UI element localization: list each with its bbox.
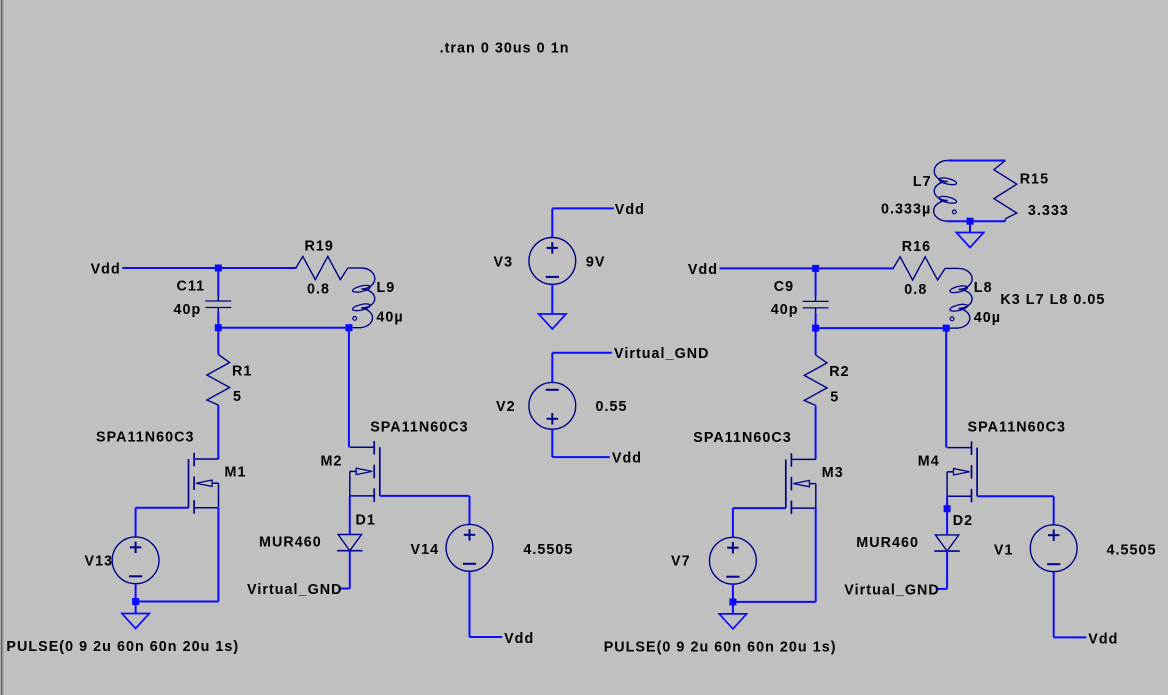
svg-text:0.55: 0.55 xyxy=(596,399,628,415)
svg-text:C11: C11 xyxy=(177,279,206,295)
svg-text:3.333: 3.333 xyxy=(1028,203,1069,219)
svg-text:Vdd: Vdd xyxy=(91,261,121,277)
svg-text:R2: R2 xyxy=(829,364,849,380)
svg-text:Virtual_GND: Virtual_GND xyxy=(844,582,940,598)
svg-text:V14: V14 xyxy=(411,542,440,558)
svg-text:M2: M2 xyxy=(321,453,343,469)
svg-text:MUR460: MUR460 xyxy=(259,535,322,551)
svg-text:4.5505: 4.5505 xyxy=(1107,542,1157,558)
svg-text:SPA11N60C3: SPA11N60C3 xyxy=(693,430,791,446)
svg-text:40µ: 40µ xyxy=(974,310,1001,326)
svg-text:Vdd: Vdd xyxy=(504,631,534,647)
svg-text:40µ: 40µ xyxy=(376,310,403,326)
svg-text:M3: M3 xyxy=(822,465,844,481)
svg-text:40p: 40p xyxy=(771,302,799,318)
svg-text:0.8: 0.8 xyxy=(904,282,927,298)
svg-text:L7: L7 xyxy=(913,174,932,190)
svg-text:V13: V13 xyxy=(85,553,114,569)
svg-text:0.8: 0.8 xyxy=(307,282,330,298)
svg-text:5: 5 xyxy=(233,389,242,405)
svg-text:R19: R19 xyxy=(305,238,334,254)
svg-text:SPA11N60C3: SPA11N60C3 xyxy=(96,429,194,445)
svg-text:40p: 40p xyxy=(174,302,202,318)
svg-text:K3 L7 L8 0.05: K3 L7 L8 0.05 xyxy=(1000,292,1105,308)
svg-text:D2: D2 xyxy=(953,513,973,529)
svg-text:Vdd: Vdd xyxy=(688,262,718,278)
svg-text:9V: 9V xyxy=(586,254,606,270)
svg-text:D1: D1 xyxy=(356,513,376,529)
svg-text:Vdd: Vdd xyxy=(612,451,642,467)
svg-text:V3: V3 xyxy=(494,254,514,270)
svg-text:V7: V7 xyxy=(671,554,691,570)
svg-text:C9: C9 xyxy=(774,279,794,295)
svg-text:R16: R16 xyxy=(902,239,931,255)
svg-text:.tran 0 30us 0 1n: .tran 0 30us 0 1n xyxy=(440,40,570,56)
svg-text:PULSE(0 9 2u 60n 60n 20u 1s): PULSE(0 9 2u 60n 60n 20u 1s) xyxy=(6,639,239,655)
svg-text:SPA11N60C3: SPA11N60C3 xyxy=(370,419,468,435)
svg-text:MUR460: MUR460 xyxy=(856,535,919,551)
svg-text:M1: M1 xyxy=(225,465,247,481)
svg-text:Vdd: Vdd xyxy=(615,202,645,218)
svg-text:L8: L8 xyxy=(974,280,993,296)
svg-text:V2: V2 xyxy=(496,399,516,415)
svg-text:Virtual_GND: Virtual_GND xyxy=(247,582,343,598)
svg-text:SPA11N60C3: SPA11N60C3 xyxy=(968,420,1066,436)
svg-text:R15: R15 xyxy=(1020,171,1049,187)
svg-text:PULSE(0 9 2u 60n 60n 20u 1s): PULSE(0 9 2u 60n 60n 20u 1s) xyxy=(604,639,837,655)
svg-text:V1: V1 xyxy=(994,542,1014,558)
svg-text:R1: R1 xyxy=(232,364,252,380)
svg-text:Virtual_GND: Virtual_GND xyxy=(614,346,710,362)
svg-text:0.333µ: 0.333µ xyxy=(881,202,931,218)
svg-text:L9: L9 xyxy=(377,280,396,296)
svg-text:M4: M4 xyxy=(918,454,940,470)
svg-text:5: 5 xyxy=(830,389,839,405)
svg-text:Vdd: Vdd xyxy=(1088,632,1118,648)
svg-text:4.5505: 4.5505 xyxy=(523,542,573,558)
